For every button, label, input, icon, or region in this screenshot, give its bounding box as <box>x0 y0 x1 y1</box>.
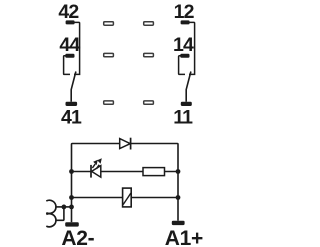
terminal A2 <box>65 222 79 226</box>
contact blade (pole 1, changeover) <box>186 72 191 102</box>
terminal 11 <box>181 102 192 106</box>
terminal A1 <box>172 221 185 225</box>
svg-text:12: 12 <box>174 1 195 23</box>
wire coil branch <box>72 197 179 199</box>
diode V1 cathode bar <box>130 138 132 150</box>
svg-text:A2-: A2- <box>61 227 94 247</box>
plug-in connector upper socket arc <box>46 200 56 213</box>
wire LED/resistor branch <box>72 171 179 173</box>
svg-text:41: 41 <box>61 107 82 129</box>
unused terminal mark row2 col2 <box>144 53 154 56</box>
wire 44 to NO fixed contact <box>64 56 70 75</box>
terminal 44 <box>65 54 74 58</box>
wire 42 to NC fixed contact <box>74 22 80 74</box>
junction dot right/coil branch <box>176 195 181 200</box>
unused terminal mark row3 col1 <box>104 101 114 104</box>
unused terminal mark row1 col1 <box>104 22 114 25</box>
wire 12 to NC fixed contact <box>189 22 195 74</box>
svg-text:11: 11 <box>173 107 193 129</box>
plug-in connector lower socket arc <box>46 214 56 227</box>
junction dot rail A2 <box>69 205 74 210</box>
terminal 42 <box>66 20 75 24</box>
junction dot left/coil branch <box>69 195 74 200</box>
junction dot left/LED branch <box>69 169 74 174</box>
unused terminal mark row3 col2 <box>144 101 154 104</box>
wire 14 to NO fixed contact <box>179 56 185 75</box>
left rail wire <box>71 172 73 223</box>
relay coil K1 diagonal <box>123 193 131 204</box>
svg-text:44: 44 <box>59 34 80 56</box>
LED V2 cathode bar <box>90 165 92 178</box>
diode V1 triangle <box>120 139 131 149</box>
resistor R1 <box>143 168 165 176</box>
LED V2 triangle <box>92 166 101 178</box>
junction dot sockets <box>62 205 67 210</box>
LED V2 emission arrows <box>92 164 99 169</box>
wire upper socket to rail <box>56 206 72 208</box>
terminal 12 <box>181 20 190 24</box>
relay coil K1 <box>123 188 132 207</box>
junction dot right/LED branch <box>176 169 181 174</box>
wire lower socket up to node <box>56 207 64 220</box>
right rail wire <box>177 172 179 221</box>
contact blade (pole 4, changeover) <box>71 72 76 102</box>
svg-text:A1+: A1+ <box>165 227 203 247</box>
terminal 41 <box>66 102 78 106</box>
unused terminal mark row1 col2 <box>144 22 154 25</box>
svg-text:42: 42 <box>58 1 79 23</box>
wire top branch (freewheeling diode branch) <box>72 144 179 172</box>
unused terminal mark row2 col1 <box>104 53 114 56</box>
svg-text:14: 14 <box>173 34 194 56</box>
terminal 14 <box>180 54 189 58</box>
